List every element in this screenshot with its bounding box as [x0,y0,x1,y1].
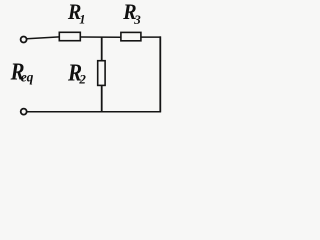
wire [27,37,60,39]
wire (right vertical) [159,36,161,112]
resistor R1 [59,32,80,40]
wire [141,36,161,38]
svg-text:1: 1 [79,12,85,26]
node (junction of R1/R3/R2) [101,37,103,61]
wire (bottom rail) [27,111,161,113]
resistor R2 [98,61,105,86]
svg-text:2: 2 [78,71,86,86]
svg-text:3: 3 [133,12,141,27]
terminal (top-left input) [21,37,27,43]
wire [80,36,121,38]
terminal (bottom-left input) [21,109,27,115]
svg-text:eq: eq [21,70,34,85]
resistor R3 [121,32,141,40]
wire [101,85,103,112]
